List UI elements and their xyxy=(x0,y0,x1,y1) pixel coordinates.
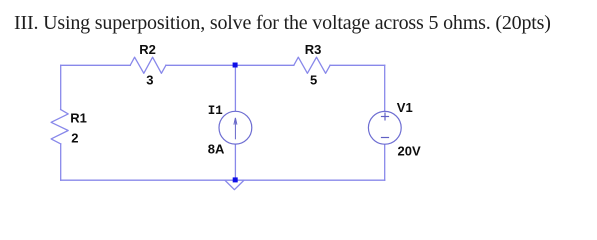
wire middle branch lower xyxy=(234,144,236,180)
wire right lower segment xyxy=(384,144,386,180)
wire left upper segment xyxy=(60,65,62,109)
wire bottom segment xyxy=(61,179,385,181)
wire top-left segment xyxy=(61,64,131,66)
wire top-right segment xyxy=(330,64,385,66)
svg-text:I1: I1 xyxy=(208,104,223,118)
resistor R3 xyxy=(294,57,330,73)
wire left lower segment xyxy=(60,144,62,180)
node junction top xyxy=(233,63,238,68)
svg-text:R3: R3 xyxy=(305,42,322,57)
ground xyxy=(225,181,243,190)
current source I1 arrow xyxy=(234,118,237,140)
svg-text:5: 5 xyxy=(310,73,317,88)
wire top-middle segment xyxy=(166,64,294,66)
resistor R1 xyxy=(51,110,68,144)
title text xyxy=(14,12,551,35)
voltage source V1 minus sign xyxy=(381,137,389,139)
resistor R2 xyxy=(130,57,166,73)
voltage source V1 circle xyxy=(368,111,401,144)
svg-text:8A: 8A xyxy=(208,142,225,157)
current source I1 circle xyxy=(219,111,252,144)
svg-text:V1: V1 xyxy=(397,100,413,115)
wire right upper segment xyxy=(384,65,386,111)
node junction bottom xyxy=(233,177,238,182)
svg-text:3: 3 xyxy=(146,73,153,88)
svg-text:R2: R2 xyxy=(139,42,156,57)
svg-text:2: 2 xyxy=(71,131,78,146)
svg-text:R1: R1 xyxy=(70,111,87,126)
svg-text:20V: 20V xyxy=(398,143,421,158)
wire middle branch upper xyxy=(234,65,236,111)
voltage source V1 plus sign xyxy=(381,113,389,121)
